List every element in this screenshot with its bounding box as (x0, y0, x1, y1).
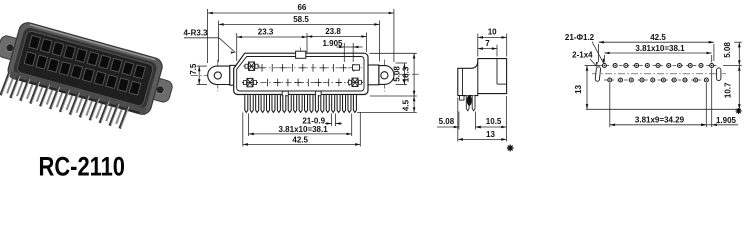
photo front pin row (1, 73, 9, 96)
front view right ear (379, 66, 394, 85)
svg-text:13: 13 (574, 84, 583, 93)
front view right bracket (368, 65, 379, 85)
front view contact marks top row (261, 64, 263, 72)
svg-text:58.5: 58.5 (293, 15, 309, 24)
svg-text:21-Φ1.2: 21-Φ1.2 (565, 33, 595, 42)
dimension 1.905 (front) (344, 46, 353, 48)
svg-text:3.81x10=38.1: 3.81x10=38.1 (635, 44, 685, 53)
svg-text:7.5: 7.5 (189, 63, 198, 75)
dimension 3.81x10=38.1 (front pin span) (249, 133, 352, 135)
dimension 42.5 (front) (243, 143, 360, 145)
svg-text:23.8: 23.8 (325, 27, 341, 36)
connector photo (0, 17, 179, 140)
front view contact marks bottom row (267, 79, 269, 87)
dimension 5.08 (footprint right) (738, 42, 740, 65)
dimension 3.81x9=34.29 (610, 124, 707, 126)
side view feet (460, 96, 465, 101)
svg-text:7: 7 (485, 39, 490, 48)
svg-text:23.3: 23.3 (258, 27, 274, 36)
dimension 4.5 (pin length) (413, 96, 415, 112)
front view body outer outline (234, 53, 368, 94)
front view left bracket (230, 65, 242, 85)
svg-text:5.08: 5.08 (439, 117, 455, 126)
dimension 10.5 (side) (476, 126, 507, 128)
front view right ear centerline (383, 60, 385, 92)
svg-text:5.08: 5.08 (723, 42, 732, 58)
svg-text:66: 66 (297, 3, 306, 12)
front view contact row centerlines (248, 67, 362, 69)
dimension 42.5 (footprint) (599, 41, 714, 43)
front view left ear (208, 66, 230, 84)
reference star (side) (507, 147, 514, 149)
side view inner lines (496, 59, 498, 85)
svg-text:16.3: 16.3 (402, 66, 411, 82)
dimension 10.7 (footprint right) (738, 66, 740, 110)
front view vertical centerline (300, 48, 302, 102)
svg-text:10.7: 10.7 (724, 82, 733, 98)
front view left ear centerline (217, 60, 219, 92)
svg-text:2-1x4: 2-1x4 (572, 50, 593, 59)
side view pins (466, 96, 469, 111)
svg-text:10.5: 10.5 (486, 117, 502, 126)
photo left mounting ear (0, 34, 23, 61)
svg-text:42.5: 42.5 (650, 33, 666, 42)
front view contact top-right (353, 65, 360, 70)
side view body profile (458, 59, 507, 96)
footprint bottom row holes (10x phi1.2) (608, 78, 612, 82)
photo connector shell (6, 21, 164, 117)
dimension 10 (side depth) (478, 36, 507, 38)
dimension 13 (footprint left) (586, 66, 588, 110)
front view screw lower-right (352, 78, 358, 86)
dimension 13 (side width) (458, 138, 507, 140)
svg-text:1.905: 1.905 (716, 116, 737, 125)
svg-text:5.08: 5.08 (393, 66, 402, 82)
dimension 7 (side) (478, 48, 497, 50)
dimension 5.08 (side pin pitch) (437, 126, 459, 128)
front view pin comb (245, 95, 248, 112)
front view horizontal centerline (191, 74, 419, 75)
reference star (footprint) (736, 110, 742, 112)
photo right mounting ear (147, 76, 174, 103)
svg-text:3.81x9=34.29: 3.81x9=34.29 (635, 116, 685, 125)
svg-text:4-R3.3: 4-R3.3 (183, 28, 208, 37)
front view screw upper-left (249, 62, 255, 70)
footprint right slot 1x4 (717, 68, 721, 81)
photo connector face (12, 26, 158, 110)
svg-text:3.81x10=38.1: 3.81x10=38.1 (279, 125, 329, 134)
footprint top row holes (11x phi1.2) (602, 64, 606, 68)
front view top cable tab (296, 51, 306, 58)
front view bottom tabs (282, 91, 288, 96)
svg-text:42.5: 42.5 (292, 135, 308, 144)
photo back pin row (7, 72, 15, 94)
footprint left slot 1x4 (595, 67, 601, 82)
dimension 23.8 (307, 36, 367, 38)
footprint bottom edge line (586, 108, 741, 110)
svg-text:4.5: 4.5 (402, 99, 411, 111)
dimension 58.5 (front hole spacing) (219, 23, 380, 25)
front view screw lower-left (247, 78, 253, 86)
front view body inner outline (237, 57, 364, 92)
dimension 23.3 (237, 36, 307, 38)
dimension 1.905 (footprint) (706, 124, 711, 126)
svg-text:13: 13 (486, 130, 495, 139)
dimension 5.08 (right ear) (403, 63, 405, 85)
dimension 66 (front overall width) (208, 12, 394, 14)
svg-text:10: 10 (488, 28, 497, 37)
photo socket contacts (29, 35, 41, 49)
photo bottom shelf (10, 71, 147, 115)
dimension 16.3 (body height) (413, 53, 415, 96)
dimension 7.5 (left ear height) (198, 66, 200, 84)
dimension 3.81x10=38.1 (footprint) (604, 52, 711, 54)
svg-text:RC-2110: RC-2110 (39, 151, 126, 180)
footprint bottom row centerline (604, 79, 712, 81)
footprint top row centerline (599, 65, 717, 67)
footprint horizontal centerline (592, 73, 726, 75)
svg-text:1.905: 1.905 (322, 39, 343, 48)
